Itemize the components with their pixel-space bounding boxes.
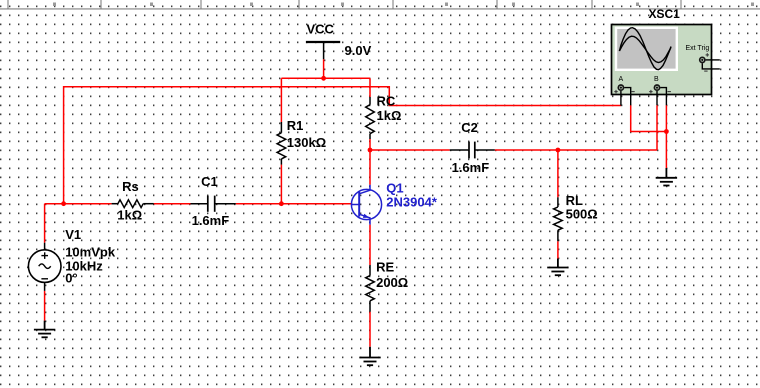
svg-text:1.6mF: 1.6mF (192, 213, 230, 228)
svg-text:Ext Trig: Ext Trig (686, 45, 710, 52)
svg-text:200Ω: 200Ω (376, 275, 408, 290)
svg-text:Q1: Q1 (386, 180, 403, 195)
svg-text:RE: RE (376, 260, 394, 275)
svg-text:RL: RL (566, 193, 583, 208)
svg-text:XSC1: XSC1 (649, 7, 681, 21)
svg-text:RC: RC (377, 94, 396, 109)
svg-text:Rs: Rs (122, 179, 139, 194)
svg-text:A: A (619, 76, 624, 83)
svg-text:9.0V: 9.0V (345, 43, 372, 58)
svg-text:0°: 0° (65, 271, 77, 286)
svg-text:B: B (654, 76, 659, 83)
svg-text:C1: C1 (201, 174, 218, 189)
svg-text:500Ω: 500Ω (566, 207, 598, 222)
svg-text:10mVpk: 10mVpk (65, 244, 116, 259)
svg-text:C2: C2 (461, 120, 478, 135)
svg-text:VCC: VCC (307, 21, 335, 36)
svg-text:R1: R1 (287, 118, 304, 133)
svg-text:2N3904*: 2N3904* (386, 195, 438, 210)
svg-text:V1: V1 (65, 227, 81, 242)
svg-text:130kΩ: 130kΩ (287, 135, 326, 150)
svg-text:1kΩ: 1kΩ (117, 207, 142, 222)
svg-text:1kΩ: 1kΩ (377, 108, 402, 123)
svg-text:1.6mF: 1.6mF (452, 160, 490, 175)
